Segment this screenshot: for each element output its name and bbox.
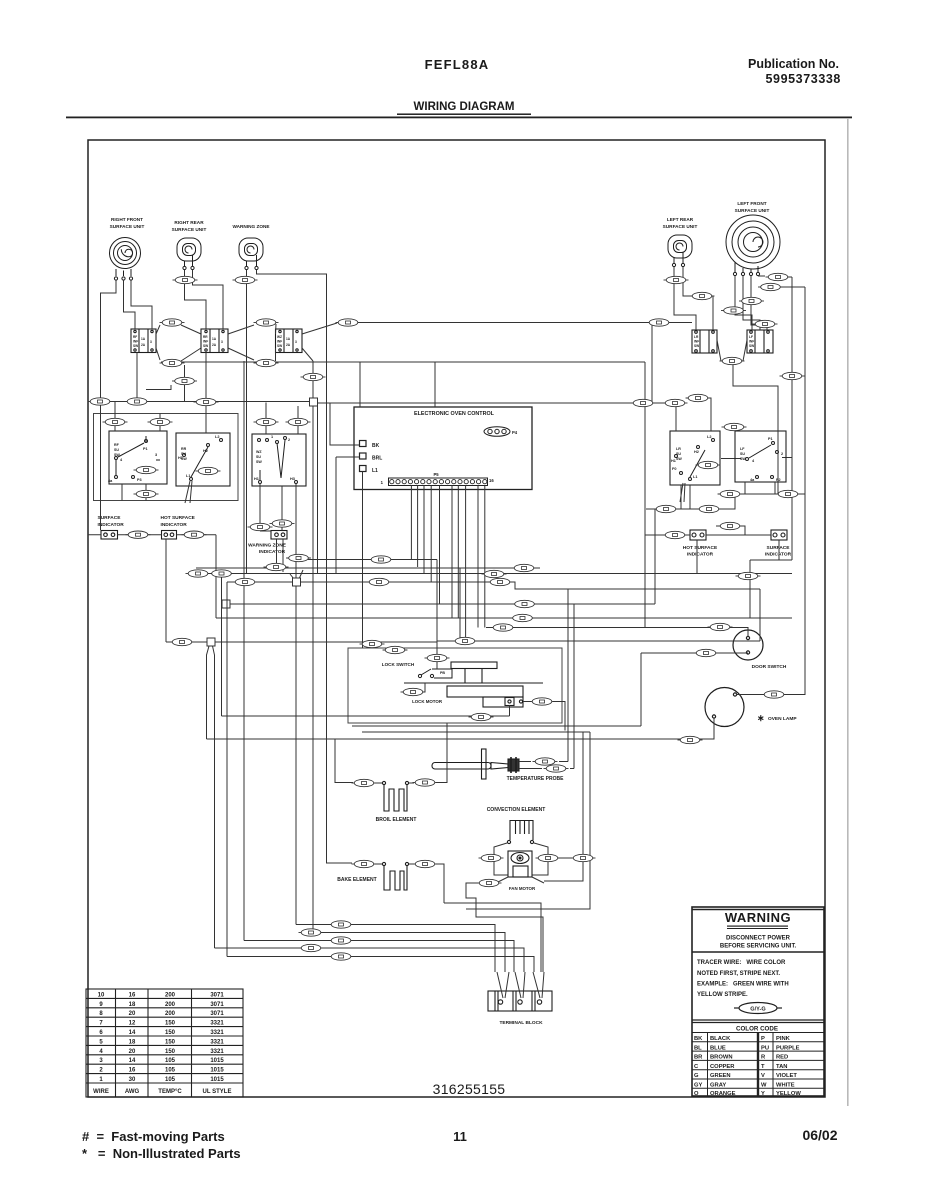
wire v645 <box>644 362 646 628</box>
connector 628 door <box>708 623 733 630</box>
svg-text:105: 105 <box>165 1077 176 1083</box>
connector RR <box>173 276 198 283</box>
svg-text:CONVECTION ELEMENT: CONVECTION ELEMENT <box>487 807 546 813</box>
hot surface indicator label <box>161 515 196 528</box>
svg-text:G: G <box>694 1073 699 1079</box>
svg-text:BLACK: BLACK <box>710 1036 731 1042</box>
svg-text:RF: RF <box>114 443 120 447</box>
warning zone indicator label <box>248 543 287 556</box>
connector 377 <box>301 373 326 380</box>
wire EOC pin drops <box>411 486 484 643</box>
wire bus509 <box>646 494 735 509</box>
svg-text:GY: GY <box>694 1083 703 1089</box>
svg-text:3: 3 <box>99 1058 103 1064</box>
svg-text:L1: L1 <box>186 474 190 478</box>
svg-text:150: 150 <box>165 1030 176 1036</box>
wire right ind drops <box>697 540 779 573</box>
svg-text:C: C <box>694 1064 699 1070</box>
connector 404 a <box>631 399 656 406</box>
svg-text:GREEN: GREEN <box>710 1073 731 1079</box>
svg-text:P: P <box>761 1036 765 1042</box>
wire box3 bottom drops <box>243 361 245 941</box>
wire bus732 <box>362 731 590 733</box>
connector hot left <box>663 531 688 538</box>
connector r312 <box>721 307 746 314</box>
svg-text:LR: LR <box>694 335 699 339</box>
wire lock sw spur <box>383 650 425 692</box>
connector fan left <box>479 854 504 861</box>
svg-text:GRAY: GRAY <box>710 1083 726 1089</box>
svg-text:Y: Y <box>761 1091 765 1097</box>
svg-text:14: 14 <box>129 1030 136 1036</box>
svg-text:LOCK SWITCH: LOCK SWITCH <box>382 662 415 667</box>
svg-text:3071: 3071 <box>210 1002 224 1008</box>
wire WZ unit left <box>246 270 248 574</box>
svg-text:WHITE: WHITE <box>776 1083 795 1089</box>
connector r301 <box>739 297 764 304</box>
connector lamp top <box>762 691 787 698</box>
left rear surface unit label <box>663 217 698 229</box>
svg-text:FEFL88A: FEFL88A <box>425 57 490 72</box>
diagram border <box>88 140 825 1097</box>
warning zone coil <box>239 238 263 270</box>
wire v216 <box>215 574 217 619</box>
svg-text:DISCONNECT POWER: DISCONNECT POWER <box>726 936 791 942</box>
connector 653 door <box>694 649 719 656</box>
wire EOC BK feed <box>330 403 360 445</box>
svg-text:1: 1 <box>271 435 273 439</box>
wire EOC top verticals <box>360 362 435 407</box>
svg-text:200: 200 <box>165 1011 176 1017</box>
svg-text:PURPLE: PURPLE <box>776 1045 800 1051</box>
left rear surface unit coil <box>668 235 692 267</box>
connector row422 b <box>148 418 173 425</box>
hot surface indicator <box>162 531 177 540</box>
wire v216 up <box>215 535 217 574</box>
svg-text:3321: 3321 <box>210 1021 224 1027</box>
svg-text:3321: 3321 <box>210 1049 224 1055</box>
svg-text:105: 105 <box>165 1058 176 1064</box>
wire RR unit left <box>185 270 207 329</box>
svg-text:INDICATOR: INDICATOR <box>687 552 714 558</box>
scan streak right <box>847 118 849 1106</box>
wire fan right <box>544 880 548 882</box>
wire box1 bottom drop <box>136 353 138 402</box>
svg-text:1015: 1015 <box>210 1068 224 1074</box>
wire box R H3 drop <box>282 484 296 578</box>
wire v184 <box>184 365 186 402</box>
svg-text:4: 4 <box>752 459 755 463</box>
wire fan slants <box>496 877 544 883</box>
svg-text:L2: L2 <box>707 435 711 439</box>
svg-text:W: W <box>761 1083 767 1089</box>
wire RF unit right <box>131 280 152 329</box>
svg-text:316255155: 316255155 <box>433 1081 506 1097</box>
svg-text:TERMINAL BLOCK: TERMINAL BLOCK <box>499 1020 543 1026</box>
junction square <box>310 398 318 406</box>
svg-text:18: 18 <box>129 1002 136 1008</box>
connector 582 b <box>367 578 392 585</box>
LF surface unit switch box <box>735 431 786 482</box>
connector broil left <box>352 779 377 786</box>
svg-text:2A: 2A <box>286 343 291 347</box>
connector bake left <box>352 860 377 867</box>
wire bake left term <box>375 863 382 865</box>
svg-text:H3: H3 <box>290 477 295 481</box>
svg-text:INF: INF <box>694 340 699 344</box>
connector boxL inner <box>134 466 159 473</box>
svg-text:4: 4 <box>120 458 123 462</box>
wire v733 h386 v778 <box>733 365 778 494</box>
svg-text:AWG: AWG <box>125 1089 140 1095</box>
svg-text:WARNING ZONE: WARNING ZONE <box>233 224 270 229</box>
svg-text:PINK: PINK <box>776 1036 791 1042</box>
connector row422 a <box>103 418 128 425</box>
svg-text:1015: 1015 <box>210 1058 224 1064</box>
connector broil right <box>413 779 438 786</box>
wire conv right oval <box>548 857 594 859</box>
LR surface unit switch box <box>670 431 720 485</box>
wire v460 <box>459 568 461 642</box>
svg-text:COLOR CODE: COLOR CODE <box>736 1026 778 1033</box>
svg-text:BLUE: BLUE <box>710 1045 726 1051</box>
container box <box>94 414 239 501</box>
connector LR right <box>690 292 715 299</box>
svg-text:SURFACE UNIT: SURFACE UNIT <box>172 227 207 232</box>
svg-text:# = Fast-moving Parts: # = Fast-moving Parts <box>82 1129 225 1144</box>
svg-text:P1: P1 <box>768 437 773 441</box>
svg-text:HOT SURFACE: HOT SURFACE <box>683 545 718 551</box>
connector 494 b <box>776 490 801 497</box>
svg-text:1015: 1015 <box>210 1077 224 1083</box>
svg-text:BK: BK <box>694 1036 703 1042</box>
connector 573 c <box>736 572 761 579</box>
svg-text:20: 20 <box>129 1011 136 1017</box>
svg-text:LF: LF <box>749 335 753 339</box>
LR infinite switch <box>692 330 717 353</box>
wire LR L1 tail <box>680 458 792 503</box>
svg-text:3321: 3321 <box>210 1030 224 1036</box>
wire v221 <box>221 573 223 716</box>
svg-text:L1: L1 <box>372 468 378 474</box>
connector 582 c <box>488 578 513 585</box>
svg-text:3: 3 <box>150 340 152 344</box>
svg-text:INDICATOR: INDICATOR <box>161 522 188 528</box>
svg-text:2: 2 <box>781 452 783 456</box>
wire WZ indicator drop <box>277 539 304 579</box>
connector 622 a <box>510 614 535 621</box>
connector ind left b <box>182 531 207 538</box>
wire bus494 <box>718 493 805 495</box>
wire v437 lock <box>436 560 438 670</box>
wire lock motor right <box>523 702 565 731</box>
lock motor <box>447 686 523 707</box>
wire broil drop <box>335 739 353 783</box>
svg-text:Publication No.: Publication No. <box>748 57 839 71</box>
wire v590 <box>466 732 590 909</box>
terminal block funnels <box>497 972 544 998</box>
wire v214 <box>213 646 215 948</box>
svg-text:BL: BL <box>694 1045 702 1051</box>
connector 568 b <box>512 564 537 571</box>
connector lamp bottom <box>678 736 703 743</box>
svg-text:2: 2 <box>288 438 290 442</box>
svg-text:LEFT FRONT: LEFT FRONT <box>737 201 766 206</box>
wire lamp top <box>736 694 805 696</box>
svg-text:INF: INF <box>133 340 138 344</box>
svg-text:SURFACE UNIT: SURFACE UNIT <box>663 224 698 229</box>
connector row401 a <box>88 398 113 405</box>
connector lock motor right <box>530 698 555 705</box>
svg-text:V: V <box>761 1073 765 1079</box>
connector row322 d <box>647 319 672 326</box>
connector fan right <box>536 854 561 861</box>
connector row363 b <box>254 359 279 366</box>
connector 404 b <box>663 399 688 406</box>
wire v760 <box>759 589 761 641</box>
svg-text:3: 3 <box>155 453 157 457</box>
svg-text:16: 16 <box>129 992 136 998</box>
svg-text:TAN: TAN <box>776 1064 787 1070</box>
svg-text:1: 1 <box>381 480 384 485</box>
svg-text:WIRING DIAGRAM: WIRING DIAGRAM <box>414 101 515 113</box>
P5 pin strip <box>389 478 488 486</box>
connector row422 d <box>286 418 311 425</box>
svg-text:3071: 3071 <box>210 1011 224 1017</box>
right front surface unit label <box>110 217 145 229</box>
svg-text:SU: SU <box>256 455 261 459</box>
door switch <box>733 630 763 660</box>
wire indicator bus left <box>88 534 216 536</box>
wire broil left term <box>375 782 382 784</box>
svg-text:L2: L2 <box>215 435 219 439</box>
surface indicator <box>101 531 118 540</box>
svg-text:SURFACE: SURFACE <box>767 545 791 551</box>
connector b959 <box>329 953 354 960</box>
connector 644 <box>360 640 385 647</box>
svg-text:WARNING: WARNING <box>725 910 791 925</box>
connector rail 376 <box>780 372 805 379</box>
svg-text:BAKE ELEMENT: BAKE ELEMENT <box>337 877 376 883</box>
wire oval spur644 <box>363 643 383 645</box>
svg-text:RIGHT REAR: RIGHT REAR <box>174 220 204 225</box>
connector 509 b <box>697 505 722 512</box>
wire v583 fan <box>548 732 583 881</box>
svg-text:3071: 3071 <box>210 992 224 998</box>
svg-text:6: 6 <box>99 1030 103 1036</box>
junction square2 <box>293 578 301 586</box>
wire EOC L1 drop <box>362 472 364 649</box>
electronic oven control box <box>354 407 532 490</box>
wire bus y402 left <box>93 401 310 403</box>
connector wz ind a <box>248 523 273 530</box>
LR internal connector <box>696 461 721 468</box>
svg-text:R: R <box>761 1055 766 1061</box>
wire probe right2 <box>519 604 574 769</box>
svg-text:YELLOW STRIPE.: YELLOW STRIPE. <box>697 992 748 998</box>
connector 494 a <box>718 490 743 497</box>
connector bake right <box>413 860 438 867</box>
wire bus956 <box>227 957 534 973</box>
connector WZ <box>233 276 258 283</box>
svg-text:SU: SU <box>740 452 745 456</box>
connector hot right <box>718 522 743 529</box>
wire door top <box>486 628 748 638</box>
LF infinite switch <box>747 330 773 353</box>
connector LR <box>664 276 689 283</box>
wire RF unit mid <box>124 280 136 329</box>
svg-text:∗: ∗ <box>757 713 765 723</box>
svg-text:2: 2 <box>99 1068 103 1074</box>
fan motor <box>508 851 532 877</box>
svg-text:WIRE: WIRE <box>93 1089 109 1095</box>
svg-text:30: 30 <box>129 1077 136 1083</box>
wing connectors around switch row <box>156 325 201 361</box>
svg-text:SURFACE UNIT: SURFACE UNIT <box>110 224 145 229</box>
wire v643 <box>640 653 642 726</box>
connector boxL below <box>134 490 159 497</box>
svg-text:12: 12 <box>129 1021 136 1027</box>
svg-text:WZ: WZ <box>277 335 282 339</box>
wire rail795 <box>791 277 793 560</box>
WZ infinite switch <box>276 329 303 353</box>
svg-text:HOT SURFACE: HOT SURFACE <box>161 515 196 521</box>
svg-text:9: 9 <box>99 1002 103 1008</box>
svg-text:105: 105 <box>165 1068 176 1074</box>
connector row401 c <box>194 398 219 405</box>
svg-text:BROWN: BROWN <box>710 1055 733 1061</box>
svg-text:* = Non-Illustrated Parts: * = Non-Illustrated Parts <box>82 1146 241 1161</box>
svg-text:WZ: WZ <box>256 450 262 454</box>
svg-text:SW: SW <box>203 344 208 348</box>
wire small jog <box>146 385 171 390</box>
connector row361 r <box>720 357 745 364</box>
wire box R H1 drop <box>260 484 271 531</box>
svg-text:5995373338: 5995373338 <box>765 72 841 86</box>
wire bus904 <box>444 903 541 972</box>
wire bus726 door <box>352 725 641 727</box>
svg-text:TRACER WIRE: WIRE COLOR: TRACER WIRE: WIRE COLOR <box>697 960 786 966</box>
wire bus535 right <box>645 526 771 535</box>
wire RR unit right <box>193 270 224 329</box>
svg-text:TEMP°C: TEMP°C <box>158 1089 182 1095</box>
left front surface unit label <box>735 201 770 213</box>
svg-text:LR: LR <box>676 447 681 451</box>
wire bus940 <box>244 941 514 973</box>
svg-text:2A: 2A <box>212 343 217 347</box>
svg-text:RIGHT FRONT: RIGHT FRONT <box>111 217 143 222</box>
wire v166 <box>165 539 167 642</box>
svg-text:INF: INF <box>277 340 282 344</box>
wire bus924 <box>296 925 495 973</box>
wire LR terms <box>674 267 713 330</box>
wire bus559 <box>308 559 437 561</box>
svg-text:H1: H1 <box>671 459 676 463</box>
wire box L bottoms <box>122 484 146 501</box>
wire sq column long <box>313 361 318 933</box>
EOC terminal BK <box>360 441 367 447</box>
svg-text:SW: SW <box>277 344 282 348</box>
svg-text:1A: 1A <box>141 337 146 341</box>
connector 567 <box>264 563 289 570</box>
wire RF unit left <box>101 280 117 530</box>
warning zone indicator <box>271 531 287 540</box>
svg-text:P3: P3 <box>137 478 142 482</box>
connector row422 c <box>254 418 279 425</box>
wire bus362 <box>161 361 645 363</box>
wire bake right <box>409 864 444 903</box>
svg-text:3: 3 <box>295 340 297 344</box>
fan circuit ring <box>494 843 548 875</box>
svg-text:SURFACE UNIT: SURFACE UNIT <box>735 208 770 213</box>
connector probe b <box>544 765 569 772</box>
svg-text:L1: L1 <box>693 475 697 479</box>
right front surface unit coil <box>110 238 141 281</box>
wire EOC BRL <box>336 457 360 573</box>
svg-text:T: T <box>761 1064 765 1070</box>
connector row322 a <box>160 319 185 326</box>
svg-text:16: 16 <box>129 1068 136 1074</box>
hot surface indicator right label <box>683 545 718 558</box>
right rear surface unit coil <box>177 238 201 270</box>
junction square4 <box>207 638 215 646</box>
connector probe a <box>533 758 558 765</box>
wire v296 long <box>295 586 297 925</box>
connector fan far right <box>571 854 596 861</box>
svg-text:INF: INF <box>749 340 754 344</box>
svg-text:06/02: 06/02 <box>802 1127 837 1143</box>
junction square3 <box>222 600 230 608</box>
svg-text:G/Y-G: G/Y-G <box>750 1007 766 1013</box>
svg-text:P5: P5 <box>433 472 439 477</box>
svg-text:F0: F0 <box>672 467 676 471</box>
connector 573 a0 <box>186 570 211 577</box>
svg-text:SW: SW <box>133 344 138 348</box>
svg-text:4: 4 <box>99 1049 103 1055</box>
svg-text:4a: 4a <box>108 479 113 483</box>
wire bus716 <box>222 715 510 717</box>
svg-text:10: 10 <box>98 992 105 998</box>
svg-text:1A: 1A <box>212 337 217 341</box>
svg-text:OVEN LAMP: OVEN LAMP <box>768 716 797 722</box>
connector fan bottom <box>477 879 502 886</box>
svg-text:O: O <box>694 1091 699 1097</box>
svg-text:H1: H1 <box>254 477 259 481</box>
connector row322 b <box>254 319 279 326</box>
lock assembly box <box>348 648 562 723</box>
wire fan left <box>466 883 543 972</box>
svg-text:3: 3 <box>221 340 223 344</box>
connector 559 <box>369 556 394 563</box>
svg-text:1A: 1A <box>286 337 291 341</box>
svg-text:20: 20 <box>129 1049 136 1055</box>
wire bus573 <box>190 573 792 575</box>
temperature probe <box>432 749 519 779</box>
wire v227 <box>226 582 228 957</box>
svg-text:150: 150 <box>165 1039 176 1045</box>
svg-text:RED: RED <box>776 1055 788 1061</box>
svg-text:16: 16 <box>489 478 494 483</box>
connector b940 <box>329 937 354 944</box>
surface indicator right label <box>765 545 792 558</box>
wire door bottom <box>641 652 748 654</box>
svg-text:VIOLET: VIOLET <box>776 1073 797 1079</box>
svg-text:14: 14 <box>129 1058 136 1064</box>
wire LR box bottom <box>681 485 690 509</box>
wire bus622 <box>216 617 792 619</box>
connector b948 <box>299 944 324 951</box>
lock switch <box>418 669 452 678</box>
